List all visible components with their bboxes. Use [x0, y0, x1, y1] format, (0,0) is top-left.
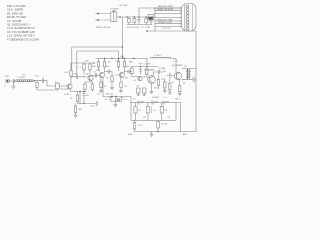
ground rail: [127, 24, 152, 26]
svg-text:R2: 1/4W 10K: R2: 1/4W 10K: [7, 11, 23, 15]
value labels: [61, 89, 96, 111]
resistor R10: [83, 63, 85, 64]
resistor R16: [111, 76, 113, 82]
resistor R13: [98, 59, 100, 62]
wire: [154, 12, 182, 14]
resistor R5: [36, 81, 38, 83]
svg-text:C5 .01 C6 25V: C5 .01 C6 25V: [126, 27, 140, 29]
lower network wire: [71, 91, 86, 93]
output coupling wire: [103, 96, 131, 98]
RFC coil L2: [150, 57, 171, 58]
resistor R11: [89, 63, 91, 64]
output side wire: [176, 103, 181, 132]
filter box: [130, 97, 132, 103]
svg-text:2N39: 2N39: [64, 94, 70, 96]
junction dots: [119, 16, 120, 17]
capacitor C11: [167, 73, 175, 78]
capacitor C10: [153, 70, 163, 76]
svg-text:L2 RFC: L2 RFC: [154, 55, 162, 57]
value labels: [138, 110, 168, 112]
wires to connector: [155, 7, 181, 9]
ground: [74, 115, 78, 117]
capacitor C1: [128, 17, 130, 19]
svg-text:RG-58: 75 OHM: RG-58: 75 OHM: [7, 15, 26, 19]
wire: [60, 85, 68, 87]
coupling capacitor C8: [105, 70, 113, 76]
svg-text:C7 .1 CW: C7 .1 CW: [141, 27, 150, 29]
interconnect wire C: [77, 51, 119, 75]
transistor Q1: [67, 84, 72, 89]
fan-out vertical: [154, 8, 156, 31]
emitter resistor R12: [91, 81, 94, 84]
svg-text:RFC: RFC: [129, 62, 134, 64]
svg-text:Q6 2N3553: Q6 2N3553: [172, 65, 183, 67]
coupling capacitor C7: [92, 73, 100, 77]
value labels: [152, 65, 187, 101]
ground: [99, 91, 103, 93]
svg-text:.05 BW: .05 BW: [152, 97, 159, 99]
transformer T4 core: [188, 69, 189, 80]
value labels: [136, 70, 158, 90]
capacitor C16: [152, 101, 153, 105]
emitter resistor R19: [120, 78, 122, 82]
resistor R17: [118, 59, 120, 62]
ground: [150, 132, 154, 137]
resistor R23: [134, 121, 136, 123]
microphone M1: [6, 79, 10, 83]
capacitor C2: [133, 17, 135, 19]
value labels: [141, 102, 170, 104]
svg-text:RL 50: RL 50: [162, 124, 169, 126]
svg-text:R 10: R 10: [138, 125, 143, 127]
wire: [9, 80, 13, 82]
svg-text:R9 22K: R9 22K: [61, 89, 68, 91]
buffer stage Q4b: [138, 76, 142, 80]
transistor Q6: [174, 72, 182, 80]
transistor Q3: [99, 72, 104, 77]
svg-text:Q1: 2N2222A BLG +: Q1: 2N2222A BLG +: [7, 23, 31, 27]
test point stub: [113, 10, 115, 12]
svg-text:WH/BL GN W/GN: WH/BL GN W/GN: [157, 9, 173, 11]
wire: [155, 10, 181, 12]
coupling capacitor C9: [125, 70, 133, 74]
svg-text:BRN/W BK W/BK: BRN/W BK W/BK: [157, 19, 173, 21]
capacitor C17: [163, 101, 164, 105]
svg-text:GND: GND: [128, 134, 133, 136]
wire labels: [157, 6, 174, 24]
resistor R22: [179, 80, 181, 86]
switch box S1: [111, 12, 117, 22]
wire: [155, 20, 181, 22]
coupling capacitor C5: [71, 75, 82, 79]
resistor R8: [75, 104, 77, 107]
wire: [47, 81, 56, 86]
svg-text:ORG/W YL W/Y: ORG/W YL W/Y: [158, 22, 173, 24]
inductor L3: [115, 99, 117, 101]
wire up over to connector: [139, 8, 181, 17]
svg-text:T1 5MH: T1 5MH: [17, 77, 25, 79]
capacitor C6: [83, 92, 86, 104]
resistor R14: [104, 59, 106, 62]
capacitor C3: [138, 17, 141, 25]
capacitor C12: [193, 77, 196, 82]
wire: [155, 17, 181, 19]
emitter resistor R15: [100, 78, 102, 82]
collector branch down: [102, 78, 104, 97]
svg-text:L1-2: 18T#22 ON T50-2: L1-2: 18T#22 ON T50-2: [7, 34, 35, 38]
ground: [12, 81, 16, 88]
right bus wire: [195, 31, 197, 132]
emitter ground: [150, 83, 154, 94]
value labels: [96, 66, 110, 96]
svg-text:C .01: C .01: [173, 61, 179, 63]
svg-text:2.2K: 2.2K: [96, 70, 101, 72]
svg-text:C7-8: 40-480PF/735 CV: C7-8: 40-480PF/735 CV: [7, 26, 35, 30]
value labels: [85, 61, 97, 76]
capacitor C3: [13, 79, 16, 83]
value labels: [115, 61, 130, 80]
resistor R18: [124, 59, 126, 62]
capacitor C15: [138, 101, 139, 105]
trimmer C20: [161, 103, 163, 107]
svg-text:+12V DC: +12V DC: [162, 28, 171, 30]
ferrite bead box: [131, 67, 133, 69]
svg-text:T2 SM: T2 SM: [159, 68, 165, 70]
capacitor C5: [150, 20, 153, 25]
svg-text:RFC 2.5MH: RFC 2.5MH: [139, 64, 151, 66]
svg-text:MIC: MIC: [6, 76, 10, 78]
resistor R7: [78, 92, 81, 104]
trimmer C19: [147, 103, 149, 107]
connector pins: [186, 5, 189, 8]
transformer T4 primary: [186, 69, 187, 80]
small box T3: [143, 88, 147, 93]
value labels: [104, 56, 188, 136]
wire: [155, 23, 181, 25]
svg-text:S1 PWR: S1 PWR: [110, 9, 119, 11]
wire: [171, 58, 176, 60]
transistor Q2: [88, 75, 93, 80]
transistor Q4: [119, 72, 124, 77]
relay K1 box: [148, 15, 154, 21]
capacitor C14: [116, 97, 124, 102]
transformer secondary: [189, 69, 190, 80]
svg-text:RED/W BL W/BL: RED/W BL W/BL: [158, 6, 174, 8]
svg-text:P: DB25M/OB-271-2 CONN: P: DB25M/OB-271-2 CONN: [7, 37, 39, 41]
svg-text:C1-5: .02MFD: C1-5: .02MFD: [7, 8, 23, 12]
pin stubs: [179, 7, 181, 27]
resistor R21: [169, 79, 171, 84]
+12V feed wire: [147, 30, 196, 32]
resistor R20: [158, 75, 160, 80]
trimmer C18: [135, 103, 137, 107]
capacitor C4: [145, 17, 147, 19]
input terminal dot B: [97, 19, 99, 21]
main supply wire: [117, 16, 148, 18]
wire: [155, 25, 181, 27]
inductor L1 chain: [16, 80, 33, 82]
interconnect wire down A: [122, 17, 124, 58]
capacitor C4: [36, 79, 47, 83]
driver supply wire: [132, 66, 158, 68]
node A: [34, 80, 35, 81]
resistor R6: [70, 70, 72, 76]
bottom wire: [135, 131, 197, 133]
emitter drop: [70, 89, 72, 91]
svg-text:4.7K: 4.7K: [64, 72, 69, 74]
bypass resistor R12b: [85, 82, 92, 84]
supply rail: [96, 58, 147, 60]
svg-text:Q5 2N3866: Q5 2N3866: [144, 70, 155, 72]
parts list text block: [7, 4, 39, 41]
svg-text:PR1: 4.7K OHM: PR1: 4.7K OHM: [7, 4, 26, 8]
svg-text:47P .02: 47P .02: [106, 94, 114, 96]
small box T2: [137, 88, 141, 93]
svg-text:10K: 10K: [35, 76, 39, 78]
ground: [114, 102, 118, 107]
base resistor: [146, 67, 148, 70]
resistor R24: [157, 121, 159, 122]
resistor R22b: [164, 78, 166, 82]
transistor Q5: [148, 76, 156, 84]
connector P1 DB25 shell: [182, 4, 197, 32]
svg-text:C6: .001 DB: C6: .001 DB: [7, 19, 21, 23]
stage Q2 top wire: [82, 62, 95, 64]
input terminal dot A: [97, 13, 99, 15]
ground: [119, 91, 123, 93]
svg-text:LM 7B05: LM 7B05: [119, 5, 129, 7]
svg-text:4.7K: 4.7K: [115, 61, 120, 63]
capacitor C13: [109, 97, 115, 102]
svg-text:S1A C4 .05 25V: S1A C4 .05 25V: [96, 26, 111, 29]
label row under top components: [96, 26, 150, 29]
svg-text:C9: C7C 90-580PF CAP: C9: C7C 90-580PF CAP: [7, 30, 35, 34]
value labels: [105, 94, 128, 102]
crystal Y1: [56, 83, 60, 89]
collector riser: [70, 76, 72, 84]
interconnect wire B: [72, 47, 123, 71]
